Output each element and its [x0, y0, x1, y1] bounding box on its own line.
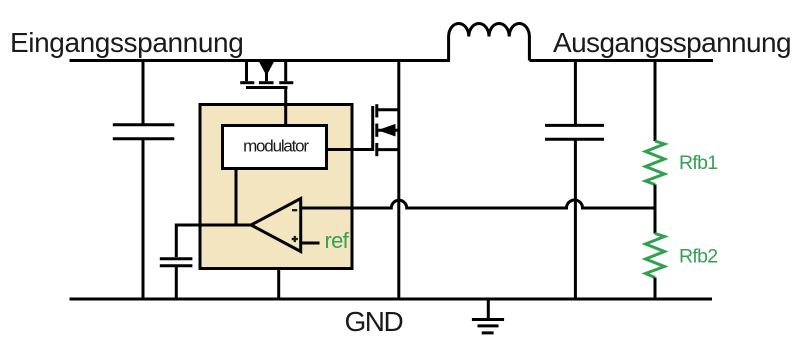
svg-text:ref: ref: [325, 228, 350, 253]
svg-text:Ausgangsspannung: Ausgangsspannung: [553, 27, 791, 58]
svg-text:Rfb1: Rfb1: [679, 152, 717, 174]
op-amp U2 (error amplifier triangle): [251, 199, 301, 252]
capacitor Cin (input capacitor): [113, 61, 175, 300]
wire: bottom ground rail: [70, 298, 713, 301]
wire: op-amp output to soft-start node: [176, 225, 251, 257]
inductor L1: [449, 23, 530, 60]
ground symbol: [472, 299, 504, 333]
svg-text:Eingangsspannung: Eingangsspannung: [10, 27, 243, 58]
capacitor Cout (output capacitor): [545, 61, 604, 300]
wire: ref input stub (non-inverting input): [301, 242, 320, 245]
IC control block U1 (beige box): [200, 105, 352, 269]
wire: top rail left segment (input to inductor): [70, 59, 451, 62]
wire: feedback line with hops (op-amp inverting input to Rfb divider): [301, 200, 655, 208]
svg-text:GND: GND: [345, 306, 403, 337]
wire: modulator bottom to op-amp output node: [235, 169, 238, 226]
wire: IC ground lead: [277, 269, 280, 300]
capacitor Css (compensation capacitor): [160, 259, 193, 299]
svg-text:modulator: modulator: [243, 137, 309, 156]
resistor Rfb2 (green zigzag): [646, 234, 665, 300]
wire: modulator output to Q2 gate: [327, 148, 373, 151]
transistor Q1 (high-side PMOS with body diode): [240, 61, 293, 88]
wire: top rail right segment (inductor to output): [530, 59, 714, 62]
svg-text:Rfb2: Rfb2: [679, 246, 717, 268]
wire: Q1 gate down to modulator: [284, 88, 287, 128]
modulator block: [223, 126, 327, 169]
wire: switch node vertical (Q2 drain/source line to rails): [397, 61, 400, 300]
transistor Q2 (NMOS switch): [373, 104, 399, 156]
resistor Rfb1 (green zigzag): [646, 61, 665, 234]
